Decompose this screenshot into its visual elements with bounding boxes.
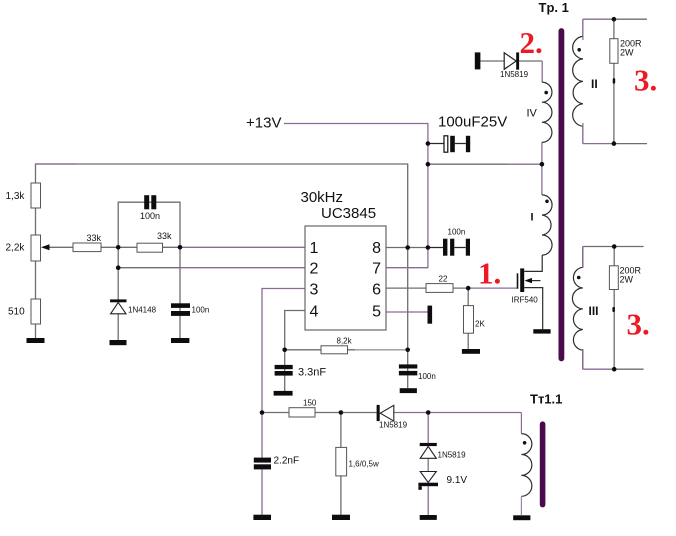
wire 200R II rail — [613, 19, 615, 143]
svg-text:3: 3 — [310, 281, 319, 298]
resistor 510 — [8, 299, 41, 324]
svg-text:Тт1.1: Тт1.1 — [530, 392, 562, 407]
svg-text:100n: 100n — [140, 211, 160, 221]
resistor 33k (left) — [73, 233, 102, 252]
svg-text:1: 1 — [310, 240, 319, 257]
svg-text:IRF540: IRF540 — [512, 296, 539, 305]
svg-text:100n: 100n — [418, 372, 436, 381]
capacitor 3.3nF — [275, 365, 327, 379]
ground bar (pin5) — [428, 306, 433, 324]
wire Vref top rail (left divider to pin8 node) — [36, 164, 408, 248]
resistor 200R 2W (lower) — [609, 266, 641, 313]
capacitor 100n (over 33k) — [140, 195, 160, 221]
wire 200R III rail — [613, 247, 615, 370]
svg-text:510: 510 — [8, 307, 25, 318]
svg-text:2K: 2K — [475, 320, 485, 329]
ground (zener) — [420, 515, 437, 520]
svg-text:1.: 1. — [478, 256, 501, 291]
wire 100n bypass leads — [428, 247, 466, 249]
svg-text:5: 5 — [372, 303, 381, 320]
svg-text:22: 22 — [439, 275, 448, 284]
svg-text:150: 150 — [303, 399, 317, 408]
resistor 2K — [464, 306, 486, 334]
wire pin1 net (purple) — [180, 246, 305, 248]
svg-text:100n: 100n — [448, 228, 466, 237]
svg-text:4: 4 — [310, 303, 319, 320]
wire 3.3nF branch — [284, 350, 286, 391]
svg-text:2W: 2W — [620, 48, 634, 58]
wire pin4 net — [285, 311, 305, 350]
svg-text:Tp. 1: Tp. 1 — [539, 0, 569, 15]
winding IV — [527, 82, 552, 142]
wire feedback loop (100n over 33k) — [118, 202, 180, 268]
label +13V — [246, 115, 281, 132]
svg-text:7: 7 — [372, 261, 381, 278]
label red 2. — [520, 25, 543, 60]
ground (IRF540 source) — [533, 329, 550, 333]
svg-text:1N4148: 1N4148 — [128, 306, 157, 315]
wire 2K branch — [467, 288, 469, 349]
svg-text:2,2k: 2,2k — [6, 243, 26, 254]
winding I — [531, 195, 553, 255]
label Tt1.1 — [530, 392, 562, 407]
wire winding IV to I junction lead — [541, 142, 543, 195]
svg-text:1N5819: 1N5819 — [438, 451, 467, 460]
wire pot wiper row to node A — [43, 246, 180, 248]
wire 100uF cap leads — [428, 143, 466, 145]
wire winding III top to 200R — [583, 246, 644, 248]
wire 8,2k row — [285, 349, 408, 351]
diode 1N5819 (snubber, top) — [500, 52, 529, 79]
wire 1,6/0,5w branch — [340, 413, 342, 515]
capacitor 2.2nF — [254, 456, 299, 470]
svg-text:I: I — [531, 212, 534, 224]
svg-text:II: II — [591, 77, 598, 91]
resistor 150 — [289, 399, 317, 418]
wire bottom row (pin3 node to snubber) — [262, 412, 521, 414]
wire winding III bottom to 200R — [583, 368, 644, 370]
resistor 33k (right) — [137, 231, 172, 252]
svg-text:33k: 33k — [87, 233, 102, 243]
capacitor 100n (node A) — [171, 303, 209, 316]
svg-text:33k: 33k — [157, 231, 172, 241]
svg-text:2.2nF: 2.2nF — [274, 456, 300, 467]
label Tp. 1 — [539, 0, 569, 15]
resistor 8,2k — [321, 337, 353, 354]
svg-text:30kHz: 30kHz — [301, 189, 344, 206]
svg-text:8: 8 — [372, 240, 381, 257]
wire winding II bottom to 200R — [583, 143, 647, 145]
transformer Tt1.1 core — [540, 424, 546, 504]
diode 1N5819 (vertical) — [420, 443, 466, 460]
ground (2K) — [462, 349, 480, 354]
svg-text:8,2k: 8,2k — [337, 337, 353, 346]
ground (1N4148) — [110, 340, 127, 345]
winding III — [572, 247, 598, 370]
ground (Tt1.1) — [513, 515, 530, 520]
label red 3. (upper) — [634, 63, 657, 98]
svg-text:100uF25V: 100uF25V — [438, 114, 507, 131]
svg-text:1,6/0,5w: 1,6/0,5w — [349, 460, 379, 469]
wire pin6 to gate — [386, 287, 517, 289]
svg-text:2.: 2. — [520, 25, 543, 60]
capacitor 100n (pin8 rail) — [399, 364, 436, 381]
ground (3.3nF) — [274, 391, 293, 396]
svg-text:1N5819: 1N5819 — [379, 421, 408, 430]
wire pin8 stub — [386, 247, 428, 249]
potentiometer 2,2k — [6, 235, 50, 261]
svg-text:III: III — [589, 304, 599, 318]
wire 1N4148 branch — [117, 268, 119, 340]
winding Tt1.1 — [521, 413, 531, 516]
wire left divider column — [35, 183, 37, 338]
wire winding II top to 200R — [583, 18, 647, 20]
wire pin3 net (purple, to bottom row) — [262, 289, 305, 515]
ground (100n node A) — [171, 338, 189, 343]
ground (left divider) — [27, 338, 45, 343]
transformer Tp.1 core — [559, 31, 565, 358]
capacitor 100uF25V — [438, 114, 507, 153]
ground (2.2nF) — [253, 515, 271, 520]
svg-text:1,3k: 1,3k — [6, 191, 26, 202]
wire rail to winding IV/I junction — [428, 163, 542, 165]
wire zener branch (purple) — [427, 413, 429, 516]
wire 100n branch (node A to ground cap) — [179, 247, 181, 338]
svg-text:IV: IV — [527, 108, 538, 120]
svg-text:6: 6 — [372, 281, 381, 298]
svg-text:2W: 2W — [620, 275, 634, 285]
wire pin2 net — [118, 267, 305, 269]
zener 9.1V — [418, 472, 467, 490]
wire pin5 to ground bar (purple) — [386, 311, 428, 313]
transistor Q1 IRF540 — [512, 255, 543, 329]
svg-text:9.1V: 9.1V — [447, 475, 468, 486]
label red 3. (lower) — [627, 307, 650, 342]
IC U1 UC3845 — [301, 189, 387, 330]
resistor 1,3k — [6, 183, 41, 208]
svg-text:100n: 100n — [192, 306, 210, 315]
svg-text:2: 2 — [310, 261, 319, 278]
resistor 1,6/0,5w — [336, 447, 379, 476]
svg-text:1N5819: 1N5819 — [500, 70, 529, 79]
terminal bar (snubber return) — [475, 52, 481, 69]
svg-text:+13V: +13V — [246, 115, 281, 132]
label red 1. — [478, 256, 501, 291]
svg-text:UC3845: UC3845 — [321, 205, 376, 222]
wire pin8 vertical rail — [407, 248, 409, 389]
resistor 200R 2W (upper) — [610, 39, 642, 84]
diode 1N4148 — [110, 299, 156, 314]
capacitor 100n (VCC bypass) — [443, 228, 470, 256]
diode 1N5819 (bottom row, horizontal) — [377, 405, 408, 430]
svg-text:3.3nF: 3.3nF — [298, 367, 326, 379]
resistor 22 — [426, 275, 453, 293]
ground (100n pin8 rail) — [400, 388, 417, 393]
winding II — [573, 19, 598, 143]
svg-text:3.: 3. — [627, 307, 650, 342]
svg-text:3.: 3. — [634, 63, 657, 98]
wire +13V net (purple) to pin7 — [284, 124, 428, 268]
ground (1,6/0,5w) — [332, 515, 350, 520]
wire top snubber diode leads — [480, 61, 542, 82]
